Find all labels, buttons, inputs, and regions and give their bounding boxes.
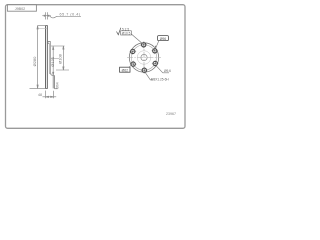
hat top plate: [48, 42, 51, 44]
callout top-right: boxed value with leader to hole B: [155, 36, 169, 49]
svg-text:Ø64: Ø64: [55, 82, 59, 89]
bolt hole F (upper left): [131, 49, 135, 53]
svg-text:Ø108: Ø108: [57, 53, 62, 64]
bolt hole D (bottom): [142, 68, 146, 72]
disc friction band fill: [46, 26, 48, 89]
svg-text:48: 48: [38, 93, 42, 97]
callout right-bottom: hole size with leader from hole C: [156, 66, 171, 73]
disc bottom edge: [46, 88, 48, 90]
bolt hole B (upper right): [153, 49, 157, 53]
thickness dimension at top: [42, 12, 81, 19]
callout left: boxed value with leader to hole E: [120, 65, 132, 73]
hub bore edge: [55, 88, 58, 90]
bolt hole E (lower left): [131, 62, 135, 66]
dimension D280 left: [30, 26, 46, 89]
bolt circle (PCD): [131, 45, 156, 70]
svg-text:Ø131: Ø131: [50, 56, 55, 67]
hub mounting face: [53, 76, 54, 89]
svg-text:Ø62: Ø62: [122, 68, 129, 72]
dimension hat inner (rotated label): [53, 46, 54, 75]
hub bore circle: [141, 54, 147, 60]
disc left face: [45, 26, 47, 89]
title box top-left: [7, 5, 36, 11]
bolt hole A (top): [142, 43, 146, 47]
svg-text:Ø96: Ø96: [160, 37, 167, 41]
callout bottom: thread spec with leader from hole D: [145, 72, 169, 81]
callout top-left: surface mark + boxed value: [117, 27, 143, 43]
svg-text:J9B02: J9B02: [15, 7, 25, 11]
svg-text:Ø9.6: Ø9.6: [164, 69, 171, 73]
hat inner wall: [49, 43, 51, 74]
extension line bore right: [56, 69, 69, 71]
svg-text:Ø10.5: Ø10.5: [122, 32, 131, 36]
dimension flange dia (rotated label): [63, 46, 64, 70]
hat outer wall: [51, 42, 55, 76]
bottom height dimension: [43, 91, 57, 99]
svg-text:M8X1.25-6H: M8X1.25-6H: [151, 77, 170, 81]
extension line hat flange: [51, 45, 65, 47]
pilot circle: [137, 51, 151, 65]
faint inner edge extension: [39, 28, 48, 30]
frame border: [6, 5, 186, 129]
vertical centerline: [143, 42, 145, 74]
disc right face: [47, 26, 49, 89]
svg-text:23967: 23967: [166, 112, 176, 116]
svg-text:Ø280: Ø280: [32, 56, 37, 67]
bolt hole tick marks: [129, 41, 158, 73]
leader to hole A: [131, 34, 142, 43]
bolt hole C (lower right): [153, 61, 157, 65]
disc top edge: [46, 24, 48, 26]
extension line mid: [51, 58, 59, 60]
svg-text:65.7 (0.4): 65.7 (0.4): [60, 12, 81, 16]
horizontal centerline: [127, 57, 161, 59]
outer circle: [129, 43, 158, 72]
